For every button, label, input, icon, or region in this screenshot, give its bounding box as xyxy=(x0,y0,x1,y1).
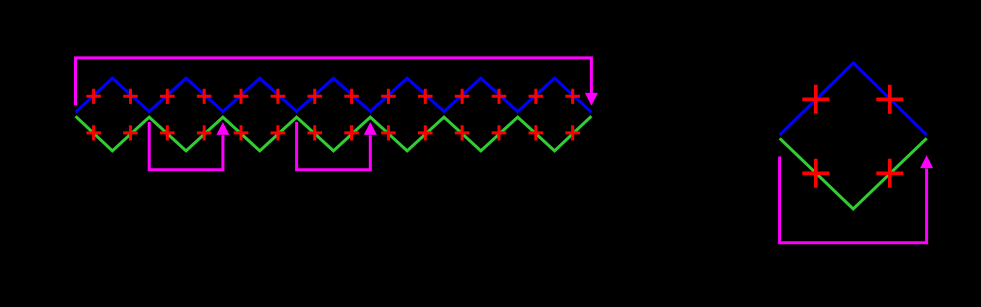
magenta arrowhead pointing up at big diamond right vertex xyxy=(920,155,933,168)
diamond 3 red + markers at its four edge midpoints xyxy=(234,89,249,104)
magenta arrowhead pointing up at node 5 xyxy=(364,122,377,135)
diamond 1 red + markers at its four edge midpoints xyxy=(86,89,101,104)
magenta bracket arrow from node 4 under the chain to node 5 xyxy=(297,122,371,170)
big diamond red + markers at its four edge midpoints xyxy=(802,85,829,114)
diamond 6 red + markers at its four edge midpoints xyxy=(455,89,470,104)
magenta arrowhead pointing up at node 3 xyxy=(216,122,229,135)
magenta top connector arrow from node 1 over the chain to node 8 xyxy=(76,58,592,105)
chain blue upper zigzag through 7 diamond peaks xyxy=(76,78,592,112)
magenta bracket arrow from node 2 under the chain to node 3 xyxy=(149,122,223,170)
magenta bracket arrow from big diamond left vertex under it to right vertex xyxy=(780,157,927,243)
big diamond green lower edges (left vertex to bottom to right vertex) xyxy=(780,138,927,209)
diamond 7 red + markers at its four edge midpoints xyxy=(529,89,544,104)
magenta arrowhead pointing down at node 8 xyxy=(585,93,598,106)
diamond 2 red + markers at its four edge midpoints xyxy=(160,89,175,104)
chain green lower zigzag through 7 diamond valleys xyxy=(76,116,592,151)
diamond 5 red + markers at its four edge midpoints xyxy=(381,89,396,104)
big diamond blue upper edges (left vertex to top to right vertex) xyxy=(780,63,927,135)
diamond 4 red + markers at its four edge midpoints xyxy=(307,89,322,104)
